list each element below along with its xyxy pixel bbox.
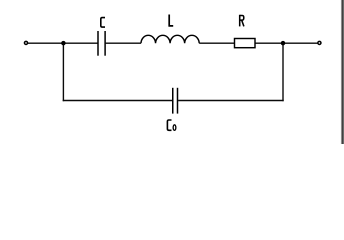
node A junction dot <box>61 41 66 46</box>
page edge shadow (right border) <box>341 0 344 144</box>
wire: capacitor C to inductor L <box>106 42 141 44</box>
label C0 <box>167 120 175 130</box>
terminal right <box>318 41 321 44</box>
wire: right vertical drop from node B <box>282 43 284 101</box>
wire: bottom left to capacitor C0 <box>63 100 173 102</box>
wire: resistor R to node B <box>255 42 283 44</box>
label C <box>101 18 105 28</box>
wire: node A to capacitor C <box>63 42 97 44</box>
resistor R <box>235 39 256 48</box>
wire: left vertical drop from node A <box>62 43 64 101</box>
inductor L <box>141 35 199 43</box>
wire: left terminal to node A <box>28 42 63 44</box>
wire: node B to right terminal <box>283 42 318 44</box>
label R <box>240 15 244 27</box>
label L <box>168 15 173 26</box>
capacitor C0 <box>173 88 178 114</box>
node B junction dot <box>281 41 286 46</box>
capacitor C <box>98 31 105 56</box>
wire: capacitor C0 to bottom right <box>178 100 284 102</box>
terminal left <box>24 41 27 44</box>
wire: inductor L to resistor R <box>199 42 234 44</box>
